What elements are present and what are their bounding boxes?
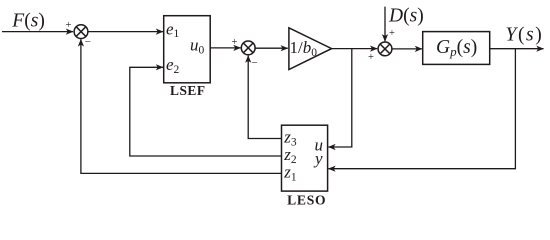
node F(s) input label — [11, 10, 45, 31]
svg-text:e2: e2 — [166, 55, 180, 76]
value label 1/b0 — [290, 38, 318, 59]
node D(s) disturbance label — [388, 5, 424, 26]
pin label u0 — [190, 36, 205, 57]
wire z1 feedback from LESO to S1 bottom input — [81, 39, 282, 173]
svg-text:+: + — [368, 52, 374, 63]
wire z3 feedback from LESO to S2 bottom input — [248, 56, 281, 139]
minus sign at S1 bottom feedback input — [85, 36, 91, 48]
svg-text:LSEF: LSEF — [170, 83, 206, 98]
wire D(s) down into S3 — [384, 7, 386, 42]
svg-text:+: + — [66, 20, 72, 31]
wire F(s) input to summing junction S1 — [2, 31, 73, 33]
pin label z2 — [283, 145, 297, 166]
svg-text:+: + — [232, 37, 238, 48]
pin label z1 — [283, 163, 297, 184]
plus sign at S3 top input — [389, 28, 395, 39]
wire S3 to block Gp(s) — [392, 48, 422, 50]
wire S1 to LSEF e1 input — [88, 31, 163, 33]
node Y(s) output label — [506, 24, 544, 45]
svg-text:Gp(s): Gp(s) — [436, 37, 477, 59]
plus sign at S1 left input — [66, 20, 72, 31]
block Gp(s) — [423, 32, 490, 65]
pin label u — [315, 136, 324, 155]
svg-text:Y(s): Y(s) — [506, 24, 544, 45]
pin label e2 — [166, 55, 180, 76]
pin label y — [313, 149, 323, 168]
pin label z3 — [283, 128, 297, 149]
summing junction S3 — [378, 42, 392, 56]
label Gp(s) — [436, 37, 477, 59]
wire 1/b0 output to summing junction S3 (branch junction at x=351.8) — [332, 48, 378, 50]
svg-text:D(s): D(s) — [388, 5, 424, 26]
wire S2 to gain block 1/b0 — [255, 47, 288, 49]
plus sign at S3 left input — [368, 52, 374, 63]
svg-text:−: − — [252, 57, 258, 69]
label LSEF — [170, 83, 206, 98]
label LESO — [287, 193, 326, 208]
pin label e1 — [166, 19, 180, 40]
gain block triangle 1/b0 — [289, 28, 332, 70]
svg-text:u0: u0 — [190, 36, 205, 57]
wire y feedback: branch from Y(s) down and left to LESO y input — [328, 49, 515, 169]
summing junction S2 — [241, 41, 255, 55]
svg-text:1/b0: 1/b0 — [290, 38, 318, 59]
wire z2 feedback from LESO to LSEF e2 input — [130, 67, 282, 156]
minus sign at S2 bottom feedback input — [252, 57, 258, 69]
plus sign at S2 left input — [232, 37, 238, 48]
block LESO — [282, 125, 328, 191]
block LSEF — [164, 16, 211, 83]
svg-text:F(s): F(s) — [11, 10, 45, 31]
wire Gp(s) output to Y(s) (branch junction at x=515.4) — [490, 48, 544, 50]
wire u feedback: branch from 1/b0 output down and left to LESO u input — [328, 49, 351, 147]
svg-text:LESO: LESO — [287, 193, 326, 208]
svg-text:e1: e1 — [166, 19, 180, 40]
summing junction S1 — [74, 25, 88, 39]
svg-text:y: y — [313, 149, 323, 168]
wire LSEF u0 output to summing junction S2 — [210, 47, 240, 49]
svg-text:+: + — [389, 28, 395, 39]
svg-text:−: − — [85, 36, 91, 48]
